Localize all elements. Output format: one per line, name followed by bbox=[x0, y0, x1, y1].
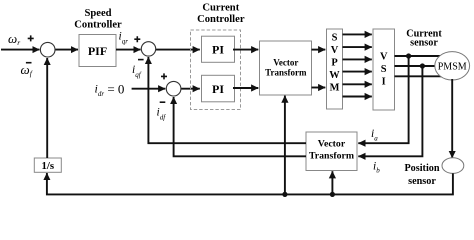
wire PMSM to position sensor bbox=[451, 79, 453, 158]
wire Vector Transform to SVPWM top bbox=[312, 49, 326, 51]
wire S3 to PI box 2 bbox=[181, 88, 200, 90]
svg-text:PI: PI bbox=[212, 82, 224, 96]
svg-text:V: V bbox=[380, 52, 388, 63]
wire SVPWM to VSI 3 bbox=[343, 58, 372, 60]
wire VSI phase b bbox=[395, 65, 446, 67]
svg-text:Transform: Transform bbox=[309, 151, 354, 162]
summing junction S1 bbox=[40, 42, 55, 57]
wire theta to lower Vector Transform bbox=[331, 171, 333, 194]
svg-text:Controller: Controller bbox=[74, 20, 122, 31]
wire SVPWM to VSI 2 bbox=[343, 46, 372, 48]
wire PI 1 to Vector Transform bbox=[233, 49, 258, 51]
junction theta to lower Vector Transform bbox=[330, 192, 335, 197]
box PIF bbox=[79, 35, 116, 67]
svg-text:1/s: 1/s bbox=[41, 160, 54, 172]
wire S2 to PI box 1 bbox=[155, 49, 200, 51]
wire SVPWM to VSI 5 bbox=[343, 83, 372, 85]
svg-text:S: S bbox=[332, 33, 338, 44]
svg-text:PMSM: PMSM bbox=[438, 61, 467, 72]
svg-text:Vector: Vector bbox=[273, 57, 298, 67]
dashed box current controller bbox=[191, 30, 241, 110]
sensor position sensor bbox=[442, 158, 464, 174]
wire i_dr to S3 bbox=[132, 88, 166, 90]
wire S1 to PIF bbox=[55, 49, 78, 51]
svg-text:Controller: Controller bbox=[197, 14, 245, 25]
svg-text:Speed: Speed bbox=[84, 8, 111, 19]
wire SVPWM to VSI 4 bbox=[343, 71, 372, 73]
junction current sensor phase a bbox=[406, 53, 411, 58]
svg-text:P: P bbox=[331, 58, 338, 69]
svg-text:PIF: PIF bbox=[88, 44, 107, 58]
minus sign at summing junction S3 bbox=[160, 101, 166, 103]
wire position sensor to 1/s bbox=[47, 173, 453, 194]
wire i_b from sensor to lower Vector Transform bbox=[358, 66, 422, 156]
summing junction S2 bbox=[141, 42, 155, 56]
minus sign at summing junction S1 bbox=[26, 62, 32, 64]
svg-text:I: I bbox=[382, 77, 386, 88]
wire i_a from sensor to lower Vector Transform bbox=[358, 56, 408, 143]
svg-text:Current: Current bbox=[202, 2, 239, 13]
box PI 2 bbox=[202, 75, 235, 102]
junction current sensor phase b bbox=[420, 63, 425, 68]
wire PIF to S2 bbox=[116, 49, 141, 51]
svg-text:W: W bbox=[329, 70, 340, 81]
svg-text:sensor: sensor bbox=[410, 38, 438, 49]
plus sign at summing junction S2 bbox=[134, 36, 140, 42]
minus sign at summing junction S2 bbox=[138, 59, 144, 61]
svg-text:Position: Position bbox=[404, 163, 439, 174]
summing junction S3 bbox=[166, 81, 181, 96]
svg-text:Transform: Transform bbox=[265, 68, 307, 78]
motor PMSM bbox=[435, 52, 470, 80]
wire Vector Transform to SVPWM bottom bbox=[312, 87, 326, 89]
plus sign at summing junction S1 bbox=[28, 35, 34, 41]
plus sign at summing junction S3 bbox=[161, 73, 167, 79]
svg-text:sensor: sensor bbox=[408, 176, 436, 187]
wire VSI phase a bbox=[395, 55, 446, 57]
wire VSI phase c bbox=[395, 75, 447, 77]
box Vector Transform lower bbox=[306, 132, 357, 171]
wire SVPWM to VSI 1 bbox=[343, 33, 372, 35]
box VSI bbox=[373, 29, 395, 110]
wire theta to upper Vector Transform bbox=[284, 96, 286, 195]
svg-text:PI: PI bbox=[212, 43, 224, 57]
box SVPWM bbox=[327, 29, 343, 109]
wire PI 2 to Vector Transform bbox=[233, 87, 258, 89]
svg-text:Vector: Vector bbox=[318, 139, 346, 150]
wire 1/s to S1 bbox=[46, 58, 48, 158]
wire SVPWM to VSI 6 bbox=[343, 96, 372, 98]
junction theta to upper Vector Transform bbox=[282, 192, 287, 197]
wire omega_r input to S1 bbox=[1, 49, 40, 51]
svg-text:S: S bbox=[381, 64, 387, 75]
wire i_d feedback to S3 bbox=[174, 97, 306, 156]
wire i_q feedback to S2 bbox=[148, 57, 306, 143]
svg-text:V: V bbox=[331, 45, 339, 56]
box Vector Transform upper bbox=[260, 41, 312, 95]
svg-text:M: M bbox=[330, 83, 340, 94]
box PI 1 bbox=[202, 36, 235, 62]
box 1/s integrator bbox=[34, 158, 61, 172]
